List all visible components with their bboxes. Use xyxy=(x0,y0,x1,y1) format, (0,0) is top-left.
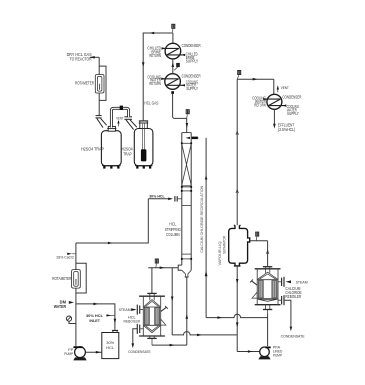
svg-text:(2.5%HCL): (2.5%HCL) xyxy=(278,127,296,132)
svg-text:TRAP: TRAP xyxy=(123,151,132,156)
svg-text:TO REACTOR: TO REACTOR xyxy=(70,57,92,62)
svg-text:REBOILER: REBOILER xyxy=(124,319,141,324)
svg-text:RETURN: RETURN xyxy=(149,81,161,86)
svg-text:INLET: INLET xyxy=(89,318,100,323)
svg-text:CONDENSER: CONDENSER xyxy=(182,43,201,48)
svg-text:REBOILER: REBOILER xyxy=(285,294,301,299)
svg-text:STEAM: STEAM xyxy=(119,307,131,312)
svg-text:CONDENSATE: CONDENSATE xyxy=(281,333,305,338)
svg-text:CONDENSATE: CONDENSATE xyxy=(128,349,151,354)
svg-text:CALCIUM CHLORIDE RECIRCULATI: CALCIUM CHLORIDE RECIRCULATION xyxy=(200,185,204,253)
svg-text:30% HCL: 30% HCL xyxy=(149,193,165,198)
svg-text:STEAM: STEAM xyxy=(296,279,308,284)
svg-text:VENT: VENT xyxy=(116,115,124,120)
svg-text:COLUMN: COLUMN xyxy=(166,232,180,237)
svg-text:VAPOUR-LIQ.: VAPOUR-LIQ. xyxy=(218,240,222,265)
svg-text:PUMP: PUMP xyxy=(273,354,283,358)
svg-text:HCL: HCL xyxy=(106,345,115,350)
svg-text:WATER: WATER xyxy=(54,304,66,309)
svg-text:28% CaCl2: 28% CaCl2 xyxy=(56,254,73,259)
svg-text:CONDENSER: CONDENSER xyxy=(282,94,301,99)
svg-text:RETURN: RETURN xyxy=(149,53,161,58)
svg-text:SUPPLY: SUPPLY xyxy=(287,111,299,116)
svg-text:ROTAMETER: ROTAMETER xyxy=(75,81,94,86)
svg-text:VENT: VENT xyxy=(281,85,289,90)
svg-text:ROTAMETER: ROTAMETER xyxy=(52,276,71,281)
svg-text:RETURN: RETURN xyxy=(254,103,266,108)
svg-text:PUMP: PUMP xyxy=(64,351,73,356)
svg-text:SUPPLY: SUPPLY xyxy=(186,59,198,64)
svg-text:SEPARATOR: SEPARATOR xyxy=(222,236,226,254)
svg-text:CONDENSER: CONDENSER xyxy=(182,73,201,78)
svg-text:HCL GAS: HCL GAS xyxy=(144,101,158,106)
svg-text:H2SO4 TRAP: H2SO4 TRAP xyxy=(81,147,104,152)
svg-text:SUPPLY: SUPPLY xyxy=(186,86,198,91)
